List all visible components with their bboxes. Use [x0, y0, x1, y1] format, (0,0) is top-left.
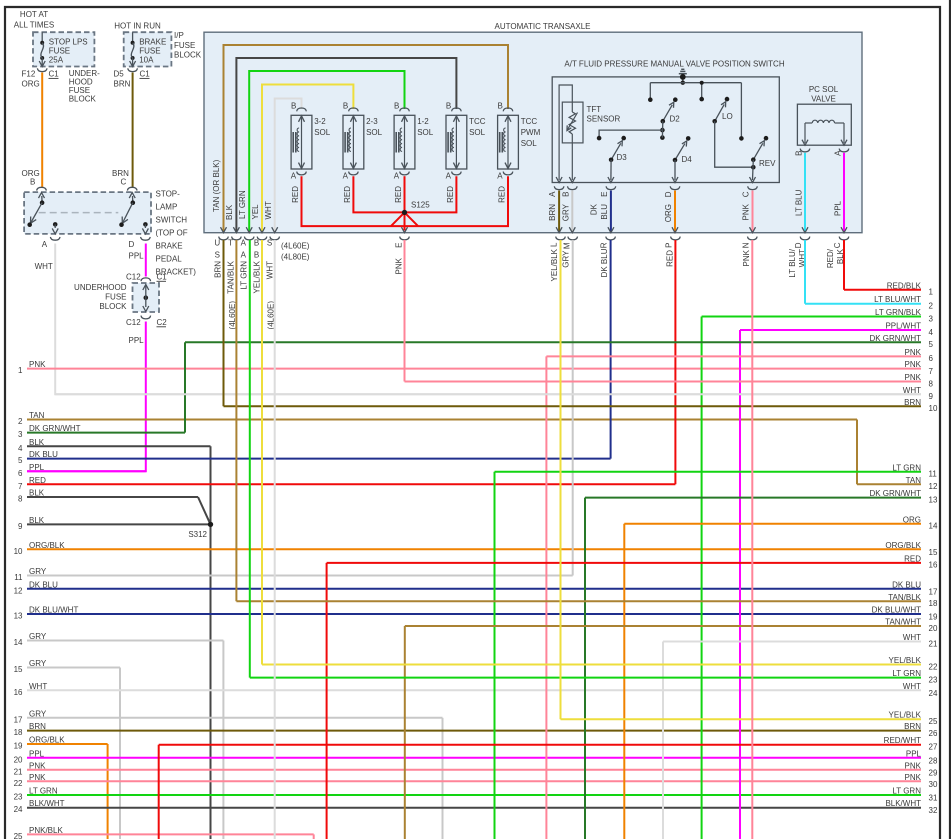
right wire 2 LT BLU/WHT	[805, 295, 934, 310]
svg-text:28: 28	[929, 756, 938, 765]
stop-lamp switch pin C terminal	[127, 187, 137, 205]
svg-text:PNK: PNK	[905, 773, 922, 782]
svg-text:TAN (OR BLK): TAN (OR BLK)	[212, 159, 221, 212]
svg-text:A: A	[241, 238, 247, 247]
svg-text:4: 4	[18, 444, 23, 453]
svg-text:BLOCK: BLOCK	[69, 95, 97, 104]
svg-text:A: A	[497, 172, 503, 181]
label A/T FLUID PRESSURE MANUAL VALVE POSITION SWITCH	[564, 60, 784, 69]
svg-text:LT BLU/: LT BLU/	[788, 248, 797, 277]
svg-text:LAMP: LAMP	[156, 203, 178, 212]
svg-text:9: 9	[929, 392, 934, 401]
svg-text:YEL: YEL	[251, 204, 260, 220]
svg-text:U: U	[214, 238, 220, 247]
svg-text:A: A	[834, 150, 843, 156]
left wire 23 LT GRN	[14, 787, 921, 802]
splice S312	[188, 522, 213, 539]
svg-text:HOT AT: HOT AT	[20, 10, 48, 19]
wire RED row 16 drop off-page	[326, 563, 328, 839]
svg-text:14: 14	[14, 638, 23, 647]
wire PPL C12 to left row 6	[27, 322, 146, 472]
right label 30 PNK	[905, 773, 922, 782]
svg-text:C2: C2	[157, 318, 168, 327]
solenoid 4 (TCC SOL)	[446, 101, 486, 202]
svg-text:21: 21	[14, 767, 23, 776]
label UNDERHOOD FUSE BLOCK at C12	[74, 283, 127, 311]
svg-text:32: 32	[929, 806, 938, 815]
stop-lamp switch contact arm right	[119, 203, 133, 227]
svg-text:21: 21	[929, 639, 938, 648]
svg-text:ORG: ORG	[22, 80, 40, 89]
switch internal bus	[650, 81, 741, 139]
svg-text:3-2: 3-2	[314, 117, 326, 126]
left wire 5 DK BLU	[18, 450, 611, 465]
connector C1 under stop lps fuse	[22, 68, 60, 88]
svg-text:LT GRN: LT GRN	[892, 787, 921, 796]
transaxle connector pin S	[270, 227, 280, 240]
svg-text:PNK: PNK	[905, 761, 922, 770]
svg-text:25A: 25A	[49, 56, 64, 65]
svg-text:8: 8	[18, 495, 23, 504]
left wire 16 WHT	[14, 682, 921, 697]
svg-text:PPL: PPL	[906, 749, 922, 758]
svg-text:PPL: PPL	[834, 200, 843, 216]
svg-text:22: 22	[929, 662, 938, 671]
svg-text:20: 20	[929, 624, 938, 633]
left wire 9 BLK	[18, 516, 210, 531]
svg-text:(TOP OF: (TOP OF	[156, 229, 188, 238]
left wire 4 BLK	[18, 438, 210, 453]
svg-text:BRN: BRN	[214, 261, 223, 278]
svg-text:D2: D2	[670, 115, 681, 124]
switch contact REV	[739, 136, 776, 183]
svg-text:SOL: SOL	[314, 128, 331, 137]
svg-text:13: 13	[14, 612, 23, 621]
pin letters U T A B S and 4L60E/4L80E note	[214, 238, 309, 261]
svg-text:S125: S125	[411, 201, 430, 210]
svg-text:5: 5	[929, 340, 934, 349]
right label 7 PNK	[905, 360, 922, 369]
svg-text:D: D	[794, 242, 803, 248]
ground symbol at switch	[679, 69, 687, 85]
stop-lamp switch pin B terminal	[37, 187, 47, 205]
svg-text:D3: D3	[617, 153, 628, 162]
svg-text:19: 19	[14, 742, 23, 751]
svg-text:F12: F12	[22, 70, 36, 79]
svg-text:D4: D4	[682, 155, 693, 164]
fuse BRAKE FUSE 10A	[130, 32, 167, 66]
switch contact LO	[699, 97, 753, 167]
svg-text:WHT: WHT	[264, 201, 273, 219]
left wire 24 BLK/WHT	[14, 799, 921, 814]
left wire 13 DK BLU/WHT	[14, 606, 921, 621]
svg-text:TFT: TFT	[587, 105, 602, 114]
svg-text:B: B	[343, 101, 348, 110]
svg-text:15: 15	[14, 665, 23, 674]
svg-text:18: 18	[929, 599, 938, 608]
svg-text:WHT: WHT	[266, 261, 275, 279]
transaxle connector pin R	[606, 237, 616, 240]
svg-text:FUSE: FUSE	[105, 293, 126, 302]
svg-text:10: 10	[14, 547, 23, 556]
underhood fuse block C12 pass-through connector	[126, 273, 167, 328]
TFT sensor	[556, 85, 620, 183]
svg-text:T: T	[228, 238, 233, 247]
svg-text:4: 4	[929, 328, 934, 337]
wire GRY pin M drop	[572, 240, 574, 576]
svg-text:B: B	[394, 101, 399, 110]
underhood fuse block (dashed box)	[33, 32, 94, 66]
label STOP-LAMP SWITCH (TOP OF BRAKE PEDAL BRACKET)	[156, 190, 197, 277]
svg-text:LO: LO	[722, 112, 733, 121]
svg-text:8: 8	[929, 379, 934, 388]
svg-text:L: L	[550, 242, 559, 247]
svg-text:B: B	[254, 250, 259, 259]
svg-text:BRAKE: BRAKE	[139, 38, 166, 47]
wire PNK pin E drop	[404, 240, 406, 382]
right wire 12 TAN	[857, 476, 938, 491]
svg-text:R: R	[600, 242, 609, 248]
svg-text:C: C	[742, 191, 751, 197]
wire WHT stop lamp pin A to right row 9	[35, 244, 921, 395]
wire PNK pin N straight off-page	[751, 240, 753, 839]
solenoid 3 (1-2 SOL)	[394, 101, 434, 202]
svg-text:BRAKE: BRAKE	[156, 242, 183, 251]
svg-text:16: 16	[929, 561, 938, 570]
svg-text:YEL/BLK: YEL/BLK	[253, 260, 262, 293]
right wire 6 PNK	[546, 348, 933, 363]
svg-text:A: A	[394, 172, 400, 181]
wire DK BLU pin R drop	[610, 240, 612, 459]
wire TAN/WHT row 20 drop off-page	[404, 626, 406, 839]
svg-text:C1: C1	[140, 70, 151, 79]
svg-text:26: 26	[929, 729, 938, 738]
svg-text:SENSOR: SENSOR	[587, 115, 621, 124]
svg-text:SWITCH: SWITCH	[156, 216, 188, 225]
svg-text:BRN: BRN	[548, 204, 557, 221]
left wire 14 GRY	[14, 632, 224, 647]
svg-text:S: S	[267, 238, 272, 247]
stop-lamp switch (dashed box)	[24, 192, 151, 234]
wire TAN (OR BLK) feed to solenoid 5	[224, 45, 509, 232]
svg-text:C1: C1	[157, 273, 168, 282]
svg-text:10: 10	[929, 404, 938, 413]
svg-text:24: 24	[929, 689, 938, 698]
svg-text:B: B	[446, 101, 451, 110]
svg-text:TCC: TCC	[469, 117, 486, 126]
left wire 6 PPL	[18, 463, 146, 478]
transaxle connector pin N	[748, 237, 758, 240]
left wire 11 GRY	[14, 567, 573, 582]
right label 31 LT GRN	[892, 787, 921, 796]
left wire 10 ORG/BLK	[14, 541, 921, 556]
switch contact D2	[648, 97, 680, 140]
svg-text:PC SOL: PC SOL	[809, 85, 839, 94]
right label 29 PNK	[905, 761, 922, 770]
left wire 1 PNK	[18, 360, 921, 375]
svg-text:C12: C12	[126, 273, 141, 282]
svg-text:VALVE: VALVE	[811, 95, 836, 104]
svg-text:M: M	[563, 242, 572, 249]
svg-text:10A: 10A	[139, 56, 154, 65]
left wire 25 PNK/BLK	[14, 826, 314, 839]
svg-text:5: 5	[18, 456, 23, 465]
switch contact D3	[597, 130, 663, 182]
svg-text:DK BLU: DK BLU	[600, 248, 609, 277]
label HOT IN RUN	[114, 22, 161, 31]
svg-text:25: 25	[929, 717, 938, 726]
svg-text:2: 2	[929, 302, 934, 311]
wire PNK row 6 drop off-page	[545, 356, 547, 839]
left wire 2 TAN	[18, 411, 857, 426]
transaxle connector pin E	[400, 237, 410, 240]
svg-text:29: 29	[929, 768, 938, 777]
rotated pin letters E L M R P N D C	[395, 242, 843, 249]
svg-text:16: 16	[14, 688, 23, 697]
svg-text:PPL: PPL	[129, 336, 145, 345]
wire ORG/BLK row 19 drop off-page	[107, 744, 109, 839]
stop-lamp switch contact arm left	[27, 203, 42, 227]
switch contact D4	[672, 136, 692, 182]
wire PPL stop lamp pin D to C12	[129, 244, 146, 277]
right wire 4 PPL/WHT	[740, 322, 934, 337]
wire TAN/BLK pin T drop	[235, 240, 237, 601]
svg-text:20: 20	[14, 755, 23, 764]
svg-text:GRY: GRY	[562, 250, 571, 268]
svg-text:C: C	[833, 242, 842, 248]
connector C1 under brake fuse	[114, 68, 151, 88]
switch output pin E wire DK BLU	[589, 186, 615, 232]
svg-text:PWM: PWM	[521, 128, 541, 137]
solenoid 5 (TCC PWM SOL)	[497, 101, 540, 202]
label HOT AT ALL TIMES	[14, 10, 54, 30]
svg-text:PNK: PNK	[395, 257, 404, 274]
svg-text:12: 12	[14, 586, 23, 595]
wire BRN pin U drop	[223, 240, 225, 406]
svg-text:RED: RED	[291, 186, 300, 203]
right wire 5 DK GRN/WHT	[185, 334, 934, 349]
svg-text:A: A	[291, 172, 297, 181]
svg-text:9: 9	[18, 522, 23, 531]
left wire 7 RED	[18, 476, 675, 491]
splice S125	[402, 201, 430, 215]
left wire 3 DK GRN/WHT	[18, 424, 185, 439]
left wire 18 BRN	[14, 722, 921, 737]
svg-text:SOL: SOL	[366, 128, 383, 137]
svg-text:13: 13	[929, 495, 938, 504]
right wire 21 WHT	[663, 633, 938, 648]
wire LT BLU pc sol valve pin B	[795, 149, 810, 233]
right wire 3 LT GRN/BLK	[702, 308, 934, 323]
in-box harness color labels	[212, 159, 273, 220]
svg-text:11: 11	[929, 470, 938, 479]
switch output pin D wire ORG	[664, 186, 680, 232]
svg-text:FUSE: FUSE	[139, 46, 160, 55]
svg-text:TCC: TCC	[521, 117, 538, 126]
wire PPL/WHT drop off-page	[739, 330, 741, 839]
right wire 14 ORG	[624, 515, 938, 530]
right label 24 WHT	[903, 682, 921, 691]
right wire 10 BRN	[224, 398, 938, 413]
svg-text:(4L80E): (4L80E)	[281, 253, 310, 262]
svg-text:B: B	[795, 151, 804, 156]
wire YEL/BLK pin L drop	[560, 240, 562, 719]
svg-text:GRY: GRY	[561, 203, 570, 221]
svg-text:15: 15	[929, 548, 938, 557]
svg-text:RED: RED	[394, 186, 403, 203]
svg-text:24: 24	[14, 805, 23, 814]
label I/P FUSE BLOCK	[174, 31, 202, 59]
svg-text:30: 30	[929, 780, 938, 789]
svg-text:FUSE: FUSE	[49, 46, 70, 55]
svg-text:LT GRN: LT GRN	[240, 261, 249, 290]
svg-text:ALL TIMES: ALL TIMES	[14, 20, 54, 29]
svg-text:I/P: I/P	[174, 31, 184, 40]
wire BLK row 8 diagonal to splice S312	[198, 497, 211, 524]
mechanical link (dashed)	[39, 212, 119, 214]
svg-text:25: 25	[14, 832, 23, 839]
svg-text:STOP LPS: STOP LPS	[49, 38, 88, 47]
svg-text:S: S	[215, 250, 220, 259]
svg-text:TAN/BLK: TAN/BLK	[227, 260, 236, 293]
svg-text:DK: DK	[589, 203, 598, 215]
right label 26 BRN	[904, 722, 921, 731]
transaxle connector pin U	[219, 227, 229, 240]
left wire 19 ORG/BLK	[14, 736, 108, 751]
wire WHT row 21 drop off-page	[662, 642, 664, 839]
wire BLK vertical through S312 to off-page	[210, 446, 212, 839]
svg-text:(4L60E): (4L60E)	[281, 242, 310, 251]
svg-text:2: 2	[18, 417, 23, 426]
svg-text:2-3: 2-3	[366, 117, 378, 126]
svg-text:3: 3	[929, 314, 934, 323]
solenoid 2 (2-3 SOL)	[343, 101, 383, 202]
svg-text:RED/: RED/	[826, 248, 835, 268]
svg-text:22: 22	[14, 779, 23, 788]
left wire 20 PPL	[14, 749, 921, 764]
left wire 8 BLK	[18, 489, 198, 504]
transaxle connector pin A	[244, 227, 254, 240]
svg-text:BLU: BLU	[600, 204, 609, 220]
wire PPL pc sol valve pin A	[834, 149, 849, 233]
svg-text:D: D	[129, 240, 135, 249]
automatic transaxle enclosure	[204, 32, 862, 233]
left wire 22 PNK	[14, 773, 921, 788]
svg-text:B: B	[498, 101, 503, 110]
svg-text:RED: RED	[666, 250, 675, 267]
svg-text:23: 23	[929, 675, 938, 684]
svg-text:7: 7	[929, 367, 934, 376]
right label 28 PPL	[906, 749, 922, 758]
right wire 25 YEL/BLK	[561, 711, 938, 726]
svg-text:AUTOMATIC TRANSAXLE: AUTOMATIC TRANSAXLE	[494, 22, 590, 31]
svg-text:C: C	[121, 178, 127, 187]
svg-text:11: 11	[14, 573, 23, 582]
wire BLK feed to solenoid 4	[236, 58, 456, 232]
right wire 11 LT GRN	[495, 463, 938, 478]
svg-text:RED: RED	[446, 186, 455, 203]
svg-text:STOP-: STOP-	[156, 190, 181, 199]
transaxle connector pin L	[556, 237, 566, 240]
wire GRY row 17 drop off-page	[442, 718, 444, 839]
svg-text:S312: S312	[188, 530, 207, 539]
svg-text:17: 17	[14, 715, 23, 724]
svg-text:BRN: BRN	[114, 80, 131, 89]
wire RED/BLK pin C drop	[843, 240, 845, 290]
right wire 23 LT GRN	[250, 669, 938, 684]
svg-text:18: 18	[14, 728, 23, 737]
wire BRN fuse to stop lamp switch pin C	[112, 73, 133, 188]
svg-text:B: B	[254, 238, 259, 247]
left wire 17 GRY	[14, 709, 443, 724]
svg-text:BLOCK: BLOCK	[174, 50, 202, 59]
svg-text:B: B	[291, 101, 296, 110]
transaxle connector pin T	[232, 227, 242, 240]
transaxle connector pin P	[671, 237, 681, 240]
svg-text:C1: C1	[49, 70, 60, 79]
svg-text:RED: RED	[498, 186, 507, 203]
wire LT GRN feed to solenoid 3	[249, 71, 404, 232]
svg-text:A: A	[446, 172, 452, 181]
svg-text:A: A	[241, 250, 247, 259]
svg-text:19: 19	[929, 613, 938, 622]
svg-text:WHT: WHT	[35, 262, 53, 271]
right label 32 BLK/WHT	[885, 799, 921, 808]
transaxle connector pin C	[839, 237, 849, 240]
right wire 1 RED/BLK	[844, 281, 934, 296]
svg-text:LT BLU: LT BLU	[795, 189, 804, 216]
right label 15 ORG/BLK	[885, 541, 921, 550]
svg-text:7: 7	[18, 482, 23, 491]
wire LT GRN/BLK drop off-page	[701, 317, 703, 839]
right wire 18 TAN/BLK	[236, 593, 938, 608]
right wire 22 YEL/BLK	[262, 656, 938, 671]
wire RED/WHT drop off-page	[158, 745, 160, 839]
svg-text:HOT IN RUN: HOT IN RUN	[114, 22, 161, 31]
stop-lamp switch pin A terminal	[42, 222, 60, 249]
wire GRY row 15 drop off-page	[119, 668, 121, 839]
svg-text:3: 3	[18, 430, 23, 439]
svg-text:E: E	[395, 243, 404, 248]
svg-text:YEL/BLK: YEL/BLK	[550, 248, 559, 281]
svg-text:FUSE: FUSE	[174, 41, 195, 50]
right wire 16 RED	[327, 554, 938, 569]
label AUTOMATIC TRANSAXLE	[494, 22, 590, 31]
manual valve position switch box	[552, 77, 779, 183]
label UNDER-HOOD FUSE BLOCK	[69, 69, 100, 104]
wire DK GRN/WHT row 13 drop off-page	[584, 498, 586, 839]
svg-text:23: 23	[14, 793, 23, 802]
right label 17 DK BLU	[892, 580, 921, 589]
svg-text:1-2: 1-2	[417, 117, 429, 126]
left wire 21 PNK	[14, 761, 921, 776]
right wire 27 RED/WHT	[159, 736, 938, 751]
wire PNK/BLK row 25 drop off-page	[313, 834, 315, 839]
wire ORG fuse to stop lamp switch pin B	[22, 73, 43, 188]
svg-text:ORG/BLK: ORG/BLK	[885, 541, 921, 550]
switch output pin B wire GRY	[561, 186, 577, 232]
wire WHT pin S straight off-page	[274, 240, 276, 839]
svg-text:12: 12	[929, 482, 938, 491]
left wire 15 GRY	[14, 659, 120, 674]
svg-text:SOL: SOL	[521, 139, 538, 148]
svg-text:31: 31	[929, 794, 938, 803]
wire YEL/BLK pin B drop	[261, 240, 263, 665]
transaxle connector pin D	[800, 237, 810, 240]
fuse STOP LPS FUSE 25A	[39, 32, 87, 66]
right wire 13 DK GRN/WHT	[585, 489, 938, 504]
solenoid 1 (3-2 SOL)	[291, 101, 331, 202]
